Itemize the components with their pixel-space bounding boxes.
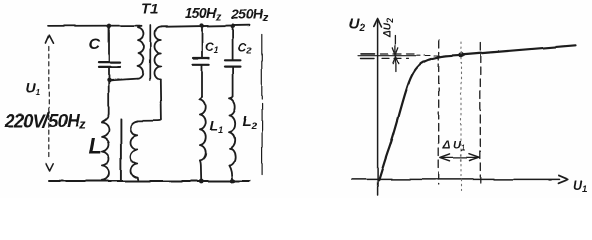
regulation band line 2 bbox=[358, 55, 421, 57]
graph x-axis bbox=[352, 178, 560, 180]
choke L compensation winding bbox=[131, 121, 138, 179]
capacitor C plates bbox=[99, 61, 121, 63]
capacitor C1 leads bbox=[201, 26, 203, 57]
wire T1 secondary bottom down bbox=[160, 79, 163, 120]
svg-text:L: L bbox=[89, 134, 102, 159]
graph x-axis arrowhead bbox=[559, 175, 569, 183]
node C1 top: junction dot bbox=[200, 23, 204, 27]
capacitor C1 plates bbox=[193, 57, 209, 59]
node A: junction dot top of C bbox=[107, 24, 111, 28]
node L2 bottom: junction dot bbox=[230, 179, 235, 184]
wire L1 bottom lead bbox=[200, 160, 201, 179]
source arrow up head bbox=[45, 35, 53, 43]
svg-text:220V/50Hz: 220V/50Hz bbox=[4, 109, 86, 132]
regulation band line 1 bbox=[361, 53, 375, 55]
transformer T1 primary winding bbox=[138, 26, 143, 79]
operating point dot bbox=[458, 52, 463, 57]
inductor L1 winding bbox=[200, 97, 206, 161]
wire across to choke secondary winding top bbox=[137, 120, 161, 121]
transformer T1 secondary winding bbox=[155, 27, 161, 79]
source arrow down head bbox=[46, 164, 53, 172]
transformer T1 core bbox=[149, 26, 151, 80]
dashed vertical line left (dU1 low) bbox=[438, 40, 440, 185]
graph y-axis arrowhead bbox=[374, 18, 382, 26]
dU1 dimension arrow bbox=[441, 156, 479, 158]
node B: junction dot bottom of C bbox=[107, 78, 111, 82]
node L1 bottom: junction dot bbox=[199, 179, 204, 184]
svg-text:C: C bbox=[89, 37, 101, 54]
capacitor C leads bbox=[108, 26, 110, 62]
regulation band line 3 bbox=[361, 58, 375, 60]
wire top horizontal left segment bbox=[48, 25, 140, 27]
wire top horizontal right segment bbox=[161, 25, 250, 27]
output boundary line right bbox=[261, 34, 263, 99]
wire L2 bottom lead bbox=[230, 166, 233, 180]
characteristic curve bbox=[379, 45, 575, 180]
choke L core bbox=[120, 120, 122, 182]
source measuring line dashed bbox=[48, 47, 50, 160]
node C2 top: junction dot bbox=[231, 24, 235, 28]
capacitor C2 leads bbox=[232, 27, 234, 59]
wire bottom horizontal bbox=[49, 180, 250, 182]
capacitor C2 plates bbox=[225, 59, 240, 61]
svg-text:T1: T1 bbox=[141, 2, 158, 18]
inductor L2 winding bbox=[230, 97, 236, 166]
svg-text:ΔU2: ΔU2 bbox=[383, 18, 395, 38]
wire from node B down to choke L bbox=[103, 81, 109, 122]
dU2 upper arrow bbox=[394, 36, 396, 53]
wire from node B to T1 primary bottom bbox=[109, 79, 138, 81]
choke L main winding bbox=[102, 122, 109, 180]
dotted vertical line centre bbox=[460, 42, 462, 191]
dU2 lower arrow bbox=[394, 60, 396, 72]
graph y-axis bbox=[377, 19, 379, 195]
dashed vertical line right (dU1 high) bbox=[479, 43, 481, 185]
